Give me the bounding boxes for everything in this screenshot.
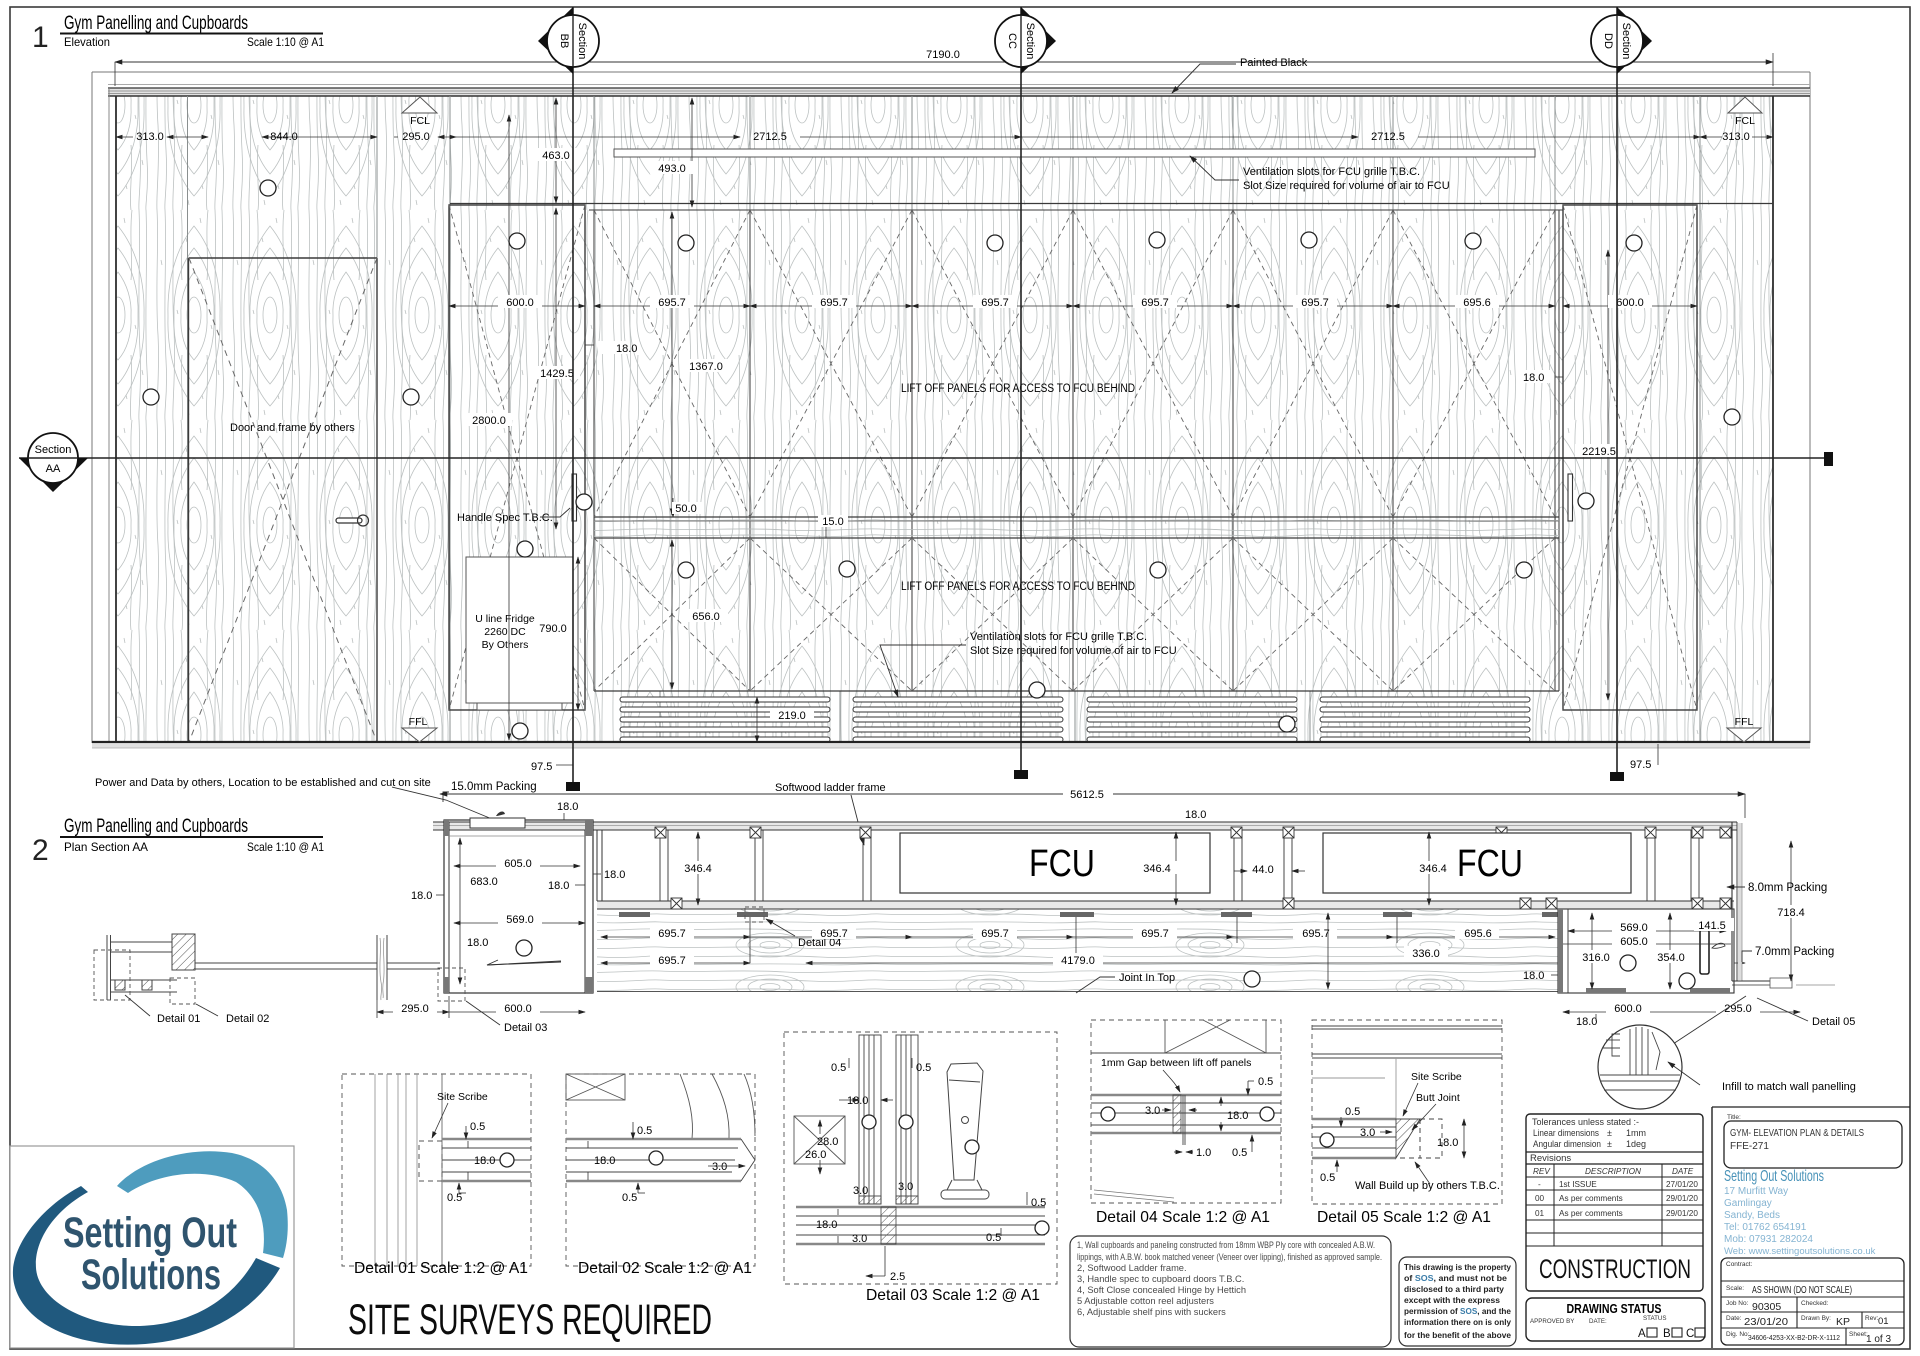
svg-text:5612.5: 5612.5 [1070, 789, 1104, 801]
svg-text:695.7: 695.7 [1302, 928, 1330, 940]
svg-text:lippings, with A.B.W. book mat: lippings, with A.B.W. book matched venee… [1077, 1252, 1382, 1262]
svg-text:Job No:: Job No: [1726, 1300, 1749, 1307]
section marker BB [538, 7, 599, 791]
svg-text:18.0: 18.0 [1437, 1137, 1458, 1149]
svg-text:KP: KP [1836, 1316, 1850, 1328]
svg-text:Angular dimension: Angular dimension [1533, 1139, 1601, 1149]
svg-text:8.0mm Packing: 8.0mm Packing [1748, 882, 1827, 894]
svg-text:for the benefit of the above: for the benefit of the above [1404, 1330, 1511, 1340]
svg-text:-: - [1538, 1180, 1541, 1189]
FCL marker left [402, 97, 437, 127]
FCL marker right [1728, 97, 1762, 127]
label Joint In Top [1076, 968, 1686, 993]
Detail 05 [1312, 1020, 1502, 1226]
ventilation slot (top) [614, 149, 1535, 157]
svg-text:313.0: 313.0 [1722, 131, 1750, 143]
bottom shelf band [796, 1207, 1045, 1244]
svg-text:2800.0: 2800.0 [472, 415, 506, 427]
dim 790.0 vertical (fridge) [533, 557, 578, 710]
svg-text:DATE: DATE [1672, 1167, 1694, 1176]
label 7.0mm packing [1742, 946, 1834, 962]
svg-text:0.5: 0.5 [637, 1125, 652, 1137]
svg-text:97.5: 97.5 [531, 761, 552, 773]
svg-text:3.0: 3.0 [712, 1161, 727, 1173]
svg-text:Detail 02 Scale 1:2 @ A1: Detail 02 Scale 1:2 @ A1 [578, 1260, 752, 1277]
svg-text:Setting Out: Setting Out [63, 1209, 237, 1257]
svg-text:Detail 01 Scale 1:2 @ A1: Detail 01 Scale 1:2 @ A1 [354, 1260, 528, 1277]
svg-text:0.5: 0.5 [447, 1192, 462, 1204]
revisions table [1526, 1164, 1703, 1246]
svg-text:Infill to match wall panellin: Infill to match wall panelling [1722, 1081, 1856, 1093]
dimension 1429.5 vertical [534, 208, 580, 529]
svg-text:2: 2 [32, 834, 49, 867]
svg-text:141.5: 141.5 [1698, 920, 1726, 932]
plan: panel wood band (plan grain) [597, 910, 1558, 992]
label Ventilation slots lower [880, 631, 1177, 697]
drawing status box [1526, 1298, 1705, 1341]
svg-text:Joint In Top: Joint In Top [1119, 972, 1175, 984]
plan: cavity area struts and FCU boxes [597, 827, 1731, 901]
label Painted Black [1172, 57, 1308, 93]
FCU unit 1 [900, 833, 1210, 893]
hinge [941, 1063, 989, 1199]
svg-text:695.7: 695.7 [658, 955, 686, 967]
svg-text:2712.5: 2712.5 [1371, 131, 1405, 143]
svg-text:15.0mm Packing: 15.0mm Packing [451, 781, 537, 793]
svg-text:7190.0: 7190.0 [926, 49, 960, 61]
FCU unit 2 [1323, 833, 1631, 893]
svg-text:0.5: 0.5 [831, 1062, 846, 1074]
svg-text:1mm: 1mm [1626, 1128, 1646, 1138]
svg-text:695.7: 695.7 [658, 297, 686, 309]
svg-text:493.0: 493.0 [658, 163, 686, 175]
svg-text:27/01/20: 27/01/20 [1666, 1180, 1698, 1189]
svg-text:346.4: 346.4 [1143, 863, 1171, 875]
svg-text:26.0: 26.0 [805, 1149, 826, 1161]
svg-text:695.7: 695.7 [658, 928, 686, 940]
svg-text:Softwood ladder frame: Softwood ladder frame [775, 782, 886, 794]
svg-text:600.0: 600.0 [506, 297, 534, 309]
svg-text:of SOS, and must not be: of SOS, and must not be [1404, 1273, 1507, 1283]
elevation outer frame [92, 72, 1810, 743]
svg-text:Gym Panelling and Cupboards: Gym Panelling and Cupboards [64, 816, 248, 837]
FFL marker right [1727, 716, 1761, 742]
dimension 493.0 vertical [650, 98, 694, 207]
svg-text:463.0: 463.0 [542, 150, 570, 162]
svg-text:0.5: 0.5 [1345, 1106, 1360, 1118]
plan: right return wall [1732, 822, 1835, 988]
plank joints [188, 96, 1701, 742]
view title 1 [32, 13, 324, 54]
svg-text:FCU: FCU [1457, 843, 1523, 885]
svg-text:REV: REV [1533, 1167, 1551, 1176]
dim 97.5 right [1630, 744, 1658, 771]
svg-text:Tolerances unless stated :-: Tolerances unless stated :- [1532, 1117, 1639, 1127]
svg-text:BB: BB [558, 34, 570, 49]
svg-text:18.0: 18.0 [604, 869, 625, 881]
svg-text:600.0: 600.0 [1614, 1003, 1642, 1015]
svg-text:Section: Section [576, 23, 588, 60]
svg-text:1st ISSUE: 1st ISSUE [1559, 1180, 1597, 1189]
svg-text:AS SHOWN (DO NOT SCALE): AS SHOWN (DO NOT SCALE) [1752, 1284, 1852, 1296]
svg-text:4, Soft Close concealed Hinge: 4, Soft Close concealed Hinge by Hettich [1077, 1285, 1246, 1295]
svg-text:Web: www.settingoutsolutions.c: Web: www.settingoutsolutions.co.uk [1724, 1246, 1876, 1257]
svg-text:695.7: 695.7 [1141, 928, 1169, 940]
dim 219.0 vertical (grille) [757, 697, 814, 742]
svg-text:3.0: 3.0 [852, 1233, 867, 1245]
svg-text:Handle Spec T.B.C.: Handle Spec T.B.C. [457, 512, 553, 524]
svg-text:1 of 3: 1 of 3 [1866, 1334, 1891, 1345]
tolerances / revisions / construction block [1526, 1114, 1703, 1291]
upper lift-off panels X bracing [594, 210, 1555, 517]
Detail 01 [342, 1074, 531, 1277]
svg-text:3.0: 3.0 [1145, 1105, 1160, 1117]
svg-text:1deg: 1deg [1626, 1139, 1646, 1149]
svg-text:Mob: 07931 282024: Mob: 07931 282024 [1724, 1234, 1813, 1245]
label Power and Data [95, 777, 492, 819]
svg-text:Power and Data by others, Loca: Power and Data by others, Location to be… [95, 777, 431, 789]
svg-text:DATE:: DATE: [1589, 1318, 1607, 1325]
svg-text:Slot Size required for volume: Slot Size required for volume of air to … [970, 645, 1177, 657]
svg-text:7.0mm Packing: 7.0mm Packing [1755, 946, 1834, 958]
svg-text:Linear dimensions: Linear dimensions [1533, 1128, 1599, 1138]
svg-text:Site Scribe: Site Scribe [1411, 1071, 1462, 1083]
svg-text:18.0: 18.0 [616, 343, 637, 355]
detail zoom bubble [1598, 1025, 1856, 1109]
svg-text:Dig. No:: Dig. No: [1726, 1331, 1750, 1338]
svg-text:1367.0: 1367.0 [689, 361, 723, 373]
svg-text:2, Softwood Ladder frame.: 2, Softwood Ladder frame. [1077, 1263, 1187, 1273]
lower panel bottom rail [594, 690, 1559, 692]
U line fridge [466, 557, 573, 710]
ventilation grilles bottom [620, 697, 1530, 742]
svg-text:APPROVED BY: APPROVED BY [1530, 1318, 1574, 1325]
svg-text:Scale:: Scale: [1726, 1285, 1744, 1292]
section marker DD [1591, 7, 1652, 781]
dimension 2800.0 vertical [466, 115, 512, 740]
dim 5612.5 [440, 786, 1745, 818]
dimension 463.0 vertical [534, 98, 578, 203]
left tall cupboard door [449, 205, 585, 710]
scribe wedge + butt joint [1396, 1119, 1442, 1158]
svg-text:0.5: 0.5 [916, 1062, 931, 1074]
svg-text:1mm Gap between lift off panel: 1mm Gap between lift off panels [1101, 1057, 1251, 1069]
svg-text:Door and frame by others: Door and frame by others [230, 422, 355, 434]
plan right dims [1523, 841, 1812, 1028]
svg-text:695.7: 695.7 [1141, 297, 1169, 309]
svg-text:44.0: 44.0 [1252, 864, 1273, 876]
svg-text:B: B [1663, 1328, 1671, 1340]
svg-text:except with the express: except with the express [1404, 1295, 1500, 1305]
logo swirl light arc [117, 1151, 288, 1258]
svg-text:Ventilation slots for FCU gril: Ventilation slots for FCU grille T.B.C. [970, 631, 1147, 643]
svg-text:FCU: FCU [1029, 843, 1095, 885]
dimension 7190.0 top [115, 46, 1773, 86]
svg-text:permission of SOS, and the: permission of SOS, and the [1404, 1306, 1511, 1316]
svg-text:90305: 90305 [1752, 1301, 1781, 1313]
svg-text:Title:: Title: [1727, 1114, 1741, 1121]
svg-text:A: A [1638, 1328, 1646, 1340]
svg-text:313.0: 313.0 [136, 131, 164, 143]
svg-text:2.5: 2.5 [890, 1271, 905, 1283]
svg-text:50.0: 50.0 [675, 503, 696, 515]
section marker CC [995, 7, 1056, 779]
svg-text:Section: Section [35, 444, 72, 456]
svg-text:STATUS: STATUS [1643, 1315, 1667, 1322]
svg-text:Drawn By:: Drawn By: [1801, 1315, 1831, 1322]
svg-text:295.0: 295.0 [402, 131, 430, 143]
svg-text:569.0: 569.0 [1620, 922, 1648, 934]
svg-text:2712.5: 2712.5 [753, 131, 787, 143]
ladder struts [660, 830, 1699, 901]
svg-text:3.0: 3.0 [853, 1185, 868, 1197]
svg-text:Checked:: Checked: [1801, 1300, 1829, 1307]
svg-text:01: 01 [1878, 1316, 1889, 1327]
svg-text:Elevation: Elevation [64, 35, 110, 49]
svg-text:1: 1 [32, 21, 49, 54]
plan: front panel band [597, 901, 1734, 909]
svg-text:695.6: 695.6 [1463, 297, 1491, 309]
svg-text:3, Handle spec to cupboard doo: 3, Handle spec to cupboard doors T.B.C. [1077, 1274, 1244, 1284]
svg-text:Revisions: Revisions [1530, 1153, 1571, 1164]
dim 336.0 [1328, 913, 1448, 989]
svg-text:DESCRIPTION: DESCRIPTION [1585, 1167, 1641, 1176]
FFL marker left [402, 716, 437, 742]
svg-text:Site Scribe: Site Scribe [437, 1091, 488, 1103]
svg-text:695.6: 695.6 [1464, 928, 1492, 940]
svg-text:CC: CC [1006, 33, 1018, 49]
logo box [10, 1146, 294, 1348]
plan: left cupboard box [444, 812, 593, 993]
plan: right end cupboard [1558, 909, 1734, 993]
Detail 04 callout [745, 907, 841, 949]
svg-text:18.0: 18.0 [1185, 809, 1206, 821]
mid rail band [594, 517, 1559, 538]
svg-text:605.0: 605.0 [504, 858, 532, 870]
svg-text:18.0: 18.0 [1227, 1110, 1248, 1122]
dimension 2219.5 vertical [1575, 250, 1623, 700]
svg-text:28.0: 28.0 [817, 1136, 838, 1148]
two door panels in section [859, 1035, 918, 1204]
svg-text:Setting Out Solutions: Setting Out Solutions [1724, 1168, 1824, 1185]
svg-text:DD: DD [1602, 33, 1614, 49]
svg-text:18.0: 18.0 [594, 1155, 615, 1167]
svg-text:By Others: By Others [482, 639, 529, 651]
svg-text:656.0: 656.0 [692, 611, 720, 623]
svg-text:GYM- ELEVATION PLAN & DETAILS: GYM- ELEVATION PLAN & DETAILS [1730, 1128, 1864, 1139]
svg-text:683.0: 683.0 [470, 876, 498, 888]
wall edges [116, 96, 1773, 742]
svg-text:FFE-271: FFE-271 [1730, 1141, 1769, 1152]
view title 2 [32, 816, 324, 867]
svg-text:18.0: 18.0 [1576, 1016, 1597, 1028]
svg-text:346.4: 346.4 [1419, 863, 1447, 875]
svg-text:1.0: 1.0 [1196, 1147, 1211, 1159]
svg-text:00: 00 [1535, 1194, 1545, 1203]
svg-text:2260 DC: 2260 DC [484, 626, 526, 638]
svg-text:0.5: 0.5 [622, 1192, 637, 1204]
svg-text:219.0: 219.0 [778, 710, 806, 722]
svg-text:15.0: 15.0 [822, 516, 843, 528]
svg-text:18.0: 18.0 [1523, 970, 1544, 982]
svg-text:18.0: 18.0 [411, 890, 432, 902]
label 8.0mm packing [1727, 882, 1827, 894]
svg-text:0.5: 0.5 [1320, 1172, 1335, 1184]
label Handle Spec [457, 508, 570, 524]
svg-text:CONSTRUCTION: CONSTRUCTION [1539, 1254, 1691, 1284]
svg-text:±: ± [1607, 1128, 1612, 1138]
Detail 05 callout leader [1673, 996, 1855, 1044]
svg-text:FCL: FCL [1735, 115, 1755, 127]
svg-text:4179.0: 4179.0 [1061, 955, 1095, 967]
circled reference numbers [143, 180, 1740, 739]
door and frame [189, 258, 378, 742]
logo swirl dark arc [13, 1186, 280, 1345]
svg-text:Butt Joint: Butt Joint [1416, 1092, 1460, 1104]
svg-text:Contract:: Contract: [1726, 1261, 1753, 1268]
svg-text:6, Adjustable shelf pins with: 6, Adjustable shelf pins with suckers [1077, 1307, 1226, 1317]
svg-text:AA: AA [46, 463, 61, 475]
svg-text:18.0: 18.0 [474, 1155, 495, 1167]
svg-text:1429.5: 1429.5 [540, 368, 574, 380]
X-box fixings top row [655, 827, 1731, 838]
svg-text:FCL: FCL [410, 115, 430, 127]
svg-text:Section: Section [1024, 23, 1036, 60]
svg-text:1, Wall cupboards and paneling: 1, Wall cupboards and paneling construct… [1077, 1240, 1375, 1250]
svg-text:0.5: 0.5 [1232, 1147, 1247, 1159]
svg-text:0.5: 0.5 [986, 1232, 1001, 1244]
svg-text:Detail 03 Scale 1:2 @ A1: Detail 03 Scale 1:2 @ A1 [866, 1287, 1040, 1304]
dimension row y=137 [116, 136, 1773, 138]
svg-text:0.5: 0.5 [1258, 1076, 1273, 1088]
svg-text:As per comments: As per comments [1559, 1194, 1623, 1203]
svg-text:695.7: 695.7 [1301, 297, 1329, 309]
dim 44.0 / 346.4 pair [676, 809, 1455, 905]
svg-text:Detail 05: Detail 05 [1812, 1016, 1855, 1028]
dim 15.0 [818, 515, 848, 538]
svg-text:18.0: 18.0 [467, 937, 488, 949]
svg-text:29/01/20: 29/01/20 [1666, 1194, 1698, 1203]
label Ventilation slots top [1190, 156, 1450, 192]
Detail 02 [566, 1074, 755, 1277]
svg-text:718.4: 718.4 [1777, 907, 1805, 919]
lower lift-off panels X bracing [594, 538, 1555, 691]
svg-text:Plan Section AA: Plan Section AA [64, 840, 148, 854]
svg-text:01: 01 [1535, 1209, 1545, 1218]
svg-text:Painted Black: Painted Black [1240, 57, 1308, 69]
svg-text:695.7: 695.7 [981, 928, 1009, 940]
section marker AA [19, 433, 1833, 492]
svg-text:600.0: 600.0 [504, 1003, 532, 1015]
svg-text:695.7: 695.7 [820, 297, 848, 309]
svg-text:2219.5: 2219.5 [1582, 446, 1616, 458]
svg-text:18.0: 18.0 [816, 1219, 837, 1231]
svg-text:Detail 02: Detail 02 [226, 1013, 269, 1025]
svg-text:354.0: 354.0 [1657, 952, 1685, 964]
svg-text:346.4: 346.4 [684, 863, 712, 875]
svg-text:Sandy, Beds: Sandy, Beds [1724, 1210, 1780, 1221]
svg-text:3.0: 3.0 [898, 1181, 913, 1193]
dimension row y=306 (panel widths) [449, 305, 1697, 307]
svg-text:Scale 1:10 @ A1: Scale 1:10 @ A1 [247, 35, 324, 49]
Detail 04 [1091, 1020, 1281, 1226]
svg-text:information there on is only: information there on is only [1404, 1317, 1511, 1327]
dim 50.0 [672, 498, 702, 517]
svg-text:600.0: 600.0 [1616, 297, 1644, 309]
lift-off panel grid verticals [594, 210, 1559, 691]
svg-text:FFL: FFL [409, 716, 428, 728]
svg-text:C: C [1686, 1328, 1694, 1340]
svg-text:316.0: 316.0 [1582, 952, 1610, 964]
svg-text:U line Fridge: U line Fridge [475, 613, 535, 625]
notes box [1070, 1236, 1391, 1347]
svg-text:97.5: 97.5 [1630, 759, 1651, 771]
shelf band [1091, 1095, 1281, 1145]
dim 656.0 vertical [672, 540, 728, 689]
svg-text:Ventilation slots for FCU gril: Ventilation slots for FCU grille T.B.C. [1243, 166, 1420, 178]
top rail lines [450, 204, 1773, 211]
svg-text:605.0: 605.0 [1620, 936, 1648, 948]
svg-text:18.0: 18.0 [847, 1095, 868, 1107]
contract / scale / job grid [1721, 1258, 1904, 1345]
svg-text:SITE SURVEYS REQUIRED: SITE SURVEYS REQUIRED [348, 1296, 712, 1344]
dim 18.0 right gap [1520, 370, 1563, 384]
svg-text:Section: Section [1620, 23, 1632, 60]
svg-text:Rev:: Rev: [1865, 1315, 1879, 1322]
svg-text:Slot Size required for volume: Slot Size required for volume of air to … [1243, 180, 1450, 192]
Detail 03 callout [438, 968, 547, 1034]
svg-text:Date:: Date: [1726, 1315, 1742, 1322]
svg-text:695.7: 695.7 [981, 297, 1009, 309]
Detail 01 / 02 leaders [125, 995, 269, 1025]
svg-text:DRAWING STATUS: DRAWING STATUS [1567, 1301, 1662, 1316]
svg-text:29/01/20: 29/01/20 [1666, 1209, 1698, 1218]
svg-text:Tel: 01762 654191: Tel: 01762 654191 [1724, 1222, 1807, 1233]
svg-text:295.0: 295.0 [401, 1003, 429, 1015]
svg-text:Gym Panelling and Cupboards: Gym Panelling and Cupboards [64, 13, 248, 34]
label Softwood ladder frame [775, 782, 886, 845]
painted black band (top trim) [108, 85, 1810, 744]
dim 97.5 left [531, 744, 573, 773]
svg-text:0.5: 0.5 [470, 1121, 485, 1133]
X-box [794, 1116, 845, 1164]
dimension 1367.0 vertical [672, 212, 729, 515]
svg-text:Detail 05 Scale 1:2 @ A1: Detail 05 Scale 1:2 @ A1 [1317, 1209, 1491, 1226]
svg-text:18.0: 18.0 [557, 801, 578, 813]
fixing cleats [619, 912, 1571, 917]
label 15.0mm Packing [443, 781, 537, 802]
svg-text:Detail 03: Detail 03 [504, 1022, 547, 1034]
svg-text:34606-4253-XX-B2-DR-X-1112: 34606-4253-XX-B2-DR-X-1112 [1748, 1333, 1840, 1342]
svg-text:LIFT OFF PANELS FOR ACCESS TO: LIFT OFF PANELS FOR ACCESS TO FCU BEHIND [901, 383, 1135, 395]
svg-text:18.0: 18.0 [1523, 372, 1544, 384]
svg-text:0.5: 0.5 [1031, 1197, 1046, 1209]
svg-text:Scale 1:10 @ A1: Scale 1:10 @ A1 [247, 840, 324, 854]
plan: back wall panel band [433, 822, 1737, 830]
svg-text:790.0: 790.0 [539, 623, 567, 635]
svg-text:569.0: 569.0 [506, 914, 534, 926]
Detail 03 [784, 1032, 1057, 1304]
ground line [92, 742, 1810, 748]
svg-text:Solutions: Solutions [81, 1251, 221, 1299]
svg-text:FFL: FFL [1735, 716, 1754, 728]
plan dim 695.7 lower + 4179.0 [601, 953, 1745, 967]
property box [1399, 1257, 1516, 1346]
svg-text:295.0: 295.0 [1724, 1003, 1752, 1015]
wall panelling (wood grain field) [116, 96, 1773, 742]
svg-text:As per comments: As per comments [1559, 1209, 1623, 1218]
svg-text:±: ± [1607, 1139, 1612, 1149]
